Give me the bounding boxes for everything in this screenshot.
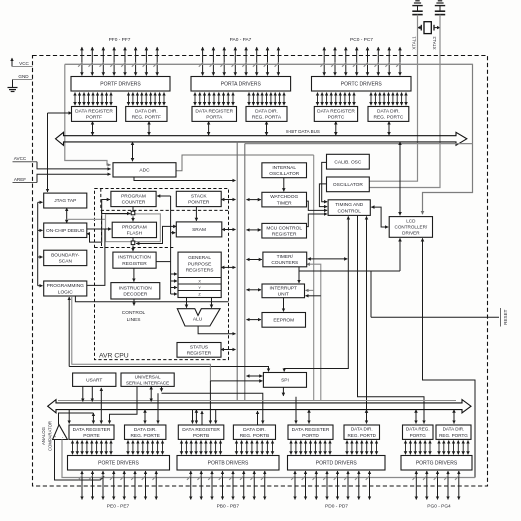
dashed region AVR CPU bbox=[95, 189, 229, 360]
box OSCILLATOR bbox=[327, 177, 370, 192]
svg-text:BOUNDARY-: BOUNDARY- bbox=[51, 252, 80, 258]
box PORTD DRIVERS bbox=[288, 456, 386, 471]
svg-text:CALIB. OSC: CALIB. OSC bbox=[334, 159, 361, 165]
bus rail A vertical bbox=[236, 142, 238, 401]
svg-text:PE0 - PE7: PE0 - PE7 bbox=[107, 504, 130, 510]
svg-text:DATA REGISTER: DATA REGISTER bbox=[182, 427, 220, 433]
wire programming logic to flash vertical bbox=[87, 229, 105, 285]
svg-text:VCC: VCC bbox=[19, 61, 29, 66]
svg-text:DECODER: DECODER bbox=[123, 292, 148, 298]
svg-text:CONTROL: CONTROL bbox=[122, 310, 146, 316]
svg-text:AVCC: AVCC bbox=[14, 156, 27, 161]
wire feeder to JTAG TAP bbox=[38, 201, 43, 203]
wire programming logic down to SPI (black) bbox=[69, 297, 268, 372]
svg-text:PROGRAMMING: PROGRAMMING bbox=[47, 283, 85, 289]
svg-text:INSTRUCTION: INSTRUCTION bbox=[119, 285, 152, 291]
svg-text:POINTER: POINTER bbox=[188, 200, 210, 206]
box JTAG TAP bbox=[44, 193, 87, 208]
svg-text:REG. PORTF: REG. PORTF bbox=[132, 115, 161, 121]
wire timing rail to PORTD direction register bbox=[366, 216, 368, 423]
power VCC bbox=[12, 58, 33, 67]
box WATCHDOG TIMER bbox=[262, 192, 307, 207]
bus arrow to PORTB register bbox=[195, 410, 197, 424]
wire timing and control to LCD bbox=[371, 207, 388, 227]
analog supply AVCC wire to ADC bbox=[13, 156, 111, 169]
box TIMER/COUNTERS bbox=[263, 252, 307, 267]
box DATA DIR. REG. PORTD bbox=[344, 425, 380, 439]
box DATA REG. PORTG bbox=[403, 425, 434, 439]
box ADC U-ADC bbox=[113, 163, 176, 177]
wire feeder to ON-CHIP DEBUG bbox=[38, 229, 43, 231]
capacitor C1 with ground (XTAL1) bbox=[412, 1, 422, 15]
bus arrow rail to MCU control register bbox=[247, 229, 261, 231]
wire rail D to interrupt unit bbox=[306, 295, 321, 297]
svg-text:AVR CPU: AVR CPU bbox=[99, 353, 129, 360]
alu U-ALU trapezoid bbox=[177, 309, 220, 326]
box BOUNDARY-SCAN bbox=[44, 250, 87, 265]
wire gray distribution under bus bbox=[245, 143, 473, 145]
pin label RESET with overline bbox=[501, 308, 509, 327]
svg-text:PORTA: PORTA bbox=[206, 115, 223, 121]
svg-text:REGISTER: REGISTER bbox=[122, 261, 147, 267]
svg-text:PORTC DRIVERS: PORTC DRIVERS bbox=[341, 82, 383, 88]
wire PC to flash with junction square bbox=[131, 207, 135, 222]
svg-text:PORTD DRIVERS: PORTD DRIVERS bbox=[316, 461, 358, 467]
svg-text:PORTE: PORTE bbox=[83, 433, 99, 439]
wire IR to register rail bbox=[156, 261, 171, 263]
wire rail to Z register bbox=[171, 293, 177, 295]
svg-text:PG0 - PG4: PG0 - PG4 bbox=[427, 504, 451, 510]
box DATA DIR. REG. PORTF bbox=[126, 107, 167, 122]
bus arrow data bus to LCD controller bbox=[399, 142, 401, 215]
svg-text:PURPOSE: PURPOSE bbox=[188, 261, 211, 267]
wire calib osc to timing and control bbox=[322, 162, 327, 201]
svg-text:AREF: AREF bbox=[14, 177, 26, 182]
bus arrow to PORTD register bbox=[308, 410, 310, 424]
box PROGRAM FLASH bbox=[112, 222, 156, 237]
svg-text:EEPROM: EEPROM bbox=[273, 318, 294, 324]
wire USART to bus 2 bbox=[91, 386, 93, 401]
svg-text:XTAL1: XTAL1 bbox=[412, 36, 417, 50]
wire rail to general purpose registers bbox=[171, 273, 177, 275]
svg-text:UNIVERSAL: UNIVERSAL bbox=[135, 374, 161, 379]
svg-text:DRIVER: DRIVER bbox=[402, 230, 420, 235]
svg-text:MCU CONTROL: MCU CONTROL bbox=[266, 225, 302, 231]
svg-text:DATA REGISTER: DATA REGISTER bbox=[195, 109, 233, 115]
box PORTA DRIVERS bbox=[191, 77, 291, 92]
svg-text:DATA REGISTER: DATA REGISTER bbox=[317, 109, 355, 115]
svg-text:GENERAL: GENERAL bbox=[188, 255, 211, 261]
box ON-CHIP DEBUG bbox=[44, 223, 87, 238]
wire bus to PORTB register 1 bbox=[192, 410, 194, 424]
op-amp analog comparator triangle bbox=[53, 425, 68, 440]
gray port routing line top bbox=[65, 63, 473, 65]
box USART bbox=[73, 373, 116, 386]
box DATA DIR. REG. PORTC bbox=[368, 107, 409, 122]
svg-text:INTERNAL: INTERNAL bbox=[272, 165, 296, 171]
wire comparator minus input gray bottom routing bbox=[62, 440, 475, 478]
box PORTC DRIVERS bbox=[312, 77, 412, 92]
svg-text:COMPARATOR: COMPARATOR bbox=[48, 421, 53, 451]
box DATA DIR. REG. PORTA bbox=[246, 107, 287, 122]
box CALIB. OSC bbox=[327, 154, 370, 169]
wire ADC to internal rail bbox=[176, 155, 314, 171]
box DATA REGISTER PORTB bbox=[178, 425, 224, 439]
wire gray distribution above bottom bus bbox=[58, 400, 456, 402]
box PORTB DRIVERS bbox=[177, 456, 279, 471]
box PORTF DRIVERS bbox=[71, 77, 170, 92]
bus arrows PORTF drivers to registers bbox=[75, 93, 111, 106]
svg-text:PORTA DRIVERS: PORTA DRIVERS bbox=[221, 82, 262, 88]
outer dashed chip boundary bbox=[33, 56, 488, 487]
svg-text:REG. PORTE: REG. PORTE bbox=[130, 433, 160, 439]
svg-text:LCD: LCD bbox=[406, 219, 416, 224]
bus arrow rail to EEPROM bbox=[247, 319, 262, 321]
svg-text:PORTC: PORTC bbox=[328, 115, 345, 121]
svg-text:DATA DIR.: DATA DIR. bbox=[134, 427, 157, 433]
analog ref AREF wire to ADC bbox=[13, 174, 111, 182]
bus arrow JTAG TAP to ON-CHIP DEBUG bbox=[66, 208, 68, 223]
box UNIVERSAL SERIAL INTERFACE bbox=[121, 373, 174, 386]
port PD pin arrows bottom bbox=[295, 471, 370, 500]
svg-text:PORTB DRIVERS: PORTB DRIVERS bbox=[208, 461, 249, 467]
capacitor C2 with ground (XTAL2) bbox=[435, 1, 445, 15]
svg-text:TIMER: TIMER bbox=[277, 200, 292, 206]
svg-text:PF0 - PF7: PF0 - PF7 bbox=[109, 37, 131, 43]
wire XTAL1 to oscillator bbox=[369, 15, 417, 182]
svg-text:SPI: SPI bbox=[281, 378, 289, 384]
svg-text:PORTF DRIVERS: PORTF DRIVERS bbox=[100, 82, 141, 88]
bus arrow status register to rail bbox=[221, 349, 236, 351]
wire bus to PORTB register 2 bbox=[215, 410, 217, 424]
junction ticks bottom routing bbox=[78, 476, 459, 480]
box STACK POINTER bbox=[176, 191, 221, 206]
svg-text:INTERRUPT: INTERRUPT bbox=[270, 285, 298, 291]
junction ticks top routing bbox=[78, 62, 400, 66]
svg-text:PROGRAM: PROGRAM bbox=[121, 194, 146, 200]
bus 8-BIT DATA BUS bbox=[56, 132, 467, 145]
box STATUS REGISTER bbox=[177, 343, 221, 358]
wire decoder to control lines bbox=[133, 299, 135, 306]
svg-text:REG. PORTC: REG. PORTC bbox=[374, 115, 404, 121]
wire ALU output to rail A bbox=[198, 326, 235, 334]
wire XTAL2 to oscillator bbox=[369, 15, 440, 188]
bus arrow SRAM to rail bbox=[222, 229, 236, 231]
svg-text:LINES: LINES bbox=[127, 317, 141, 323]
svg-text:SCAN: SCAN bbox=[59, 259, 73, 265]
svg-text:DATA DIR.: DATA DIR. bbox=[243, 427, 266, 433]
bus arrows PORTA drivers to registers bbox=[195, 93, 233, 106]
wire registers to ALU right input bbox=[211, 298, 213, 308]
box DATA REGISTER PORTA bbox=[192, 107, 237, 122]
box TIMING AND CONTROL bbox=[328, 200, 370, 216]
svg-text:CONTROL: CONTROL bbox=[337, 208, 361, 214]
box INSTRUCTION DECODER bbox=[111, 283, 160, 299]
svg-text:REGISTERS: REGISTERS bbox=[186, 268, 214, 274]
box DATA REGISTER PORTF bbox=[72, 107, 117, 122]
bus arrow to PORTG register bbox=[415, 410, 417, 424]
box LCD CONTROLLER/DRIVER bbox=[389, 217, 432, 238]
box PORTE DRIVERS bbox=[68, 456, 170, 471]
svg-text:PC0 - PC7: PC0 - PC7 bbox=[350, 37, 373, 43]
port PA pin arrows bbox=[203, 47, 279, 75]
bus arrow rail to interrupt unit bbox=[247, 289, 262, 291]
svg-text:REG. PORTD: REG. PORTD bbox=[347, 433, 376, 438]
svg-text:CONTROLLER/: CONTROLLER/ bbox=[395, 225, 428, 230]
svg-text:COUNTER: COUNTER bbox=[122, 200, 146, 206]
svg-text:DATA DIR.: DATA DIR. bbox=[135, 109, 158, 115]
box INSTRUCTION REGISTER bbox=[113, 252, 156, 268]
svg-text:DATA REGISTER: DATA REGISTER bbox=[73, 427, 111, 433]
bus arrow data bus to ADC bbox=[132, 142, 134, 161]
svg-text:8-BIT DATA BUS: 8-BIT DATA BUS bbox=[286, 129, 320, 134]
svg-text:OSCILLATOR: OSCILLATOR bbox=[269, 171, 299, 177]
wire rail to X register bbox=[171, 280, 177, 282]
bus arrows PORTG registers to drivers bbox=[406, 441, 431, 455]
box PORTG DRIVERS bbox=[401, 456, 472, 471]
box GENERAL PURPOSE REGISTERS with X Y Z bbox=[178, 252, 221, 297]
svg-text:PORTG: PORTG bbox=[410, 433, 427, 438]
svg-text:COUNTERS: COUNTERS bbox=[271, 260, 298, 266]
box EEPROM bbox=[262, 313, 306, 328]
bus arrow rail to watchdog bbox=[247, 199, 261, 201]
wire timing rail to PORTG register bbox=[358, 215, 425, 423]
wire port wire to PORTD register bbox=[295, 397, 297, 424]
box DATA DIR. REG. PORTE bbox=[125, 425, 166, 439]
svg-text:USART: USART bbox=[86, 377, 102, 383]
label CONTROL LINES bbox=[122, 310, 146, 323]
bus arrow rail to SPI bbox=[247, 375, 263, 377]
box MCU CONTROL REGISTER bbox=[262, 223, 307, 238]
wire watchdog to timing and control bbox=[307, 201, 328, 210]
svg-text:PD0 - PD7: PD0 - PD7 bbox=[325, 504, 348, 510]
svg-text:DATA DIR.: DATA DIR. bbox=[377, 109, 400, 115]
wire PORTB register to bus up bbox=[201, 411, 203, 425]
bus arrows PORTC drivers to registers bbox=[318, 93, 355, 106]
wire rail to Y register bbox=[171, 287, 177, 289]
svg-text:DATA DIR.: DATA DIR. bbox=[351, 427, 373, 432]
dashed divider flash section bbox=[95, 210, 175, 247]
port PF pin arrows bbox=[82, 47, 157, 75]
svg-text:STACK: STACK bbox=[191, 194, 207, 200]
box SPI bbox=[263, 373, 306, 388]
bus arrow stack pointer to rail bbox=[221, 199, 235, 201]
svg-text:REG. PORTA: REG. PORTA bbox=[252, 115, 282, 121]
wire reset to LCD bottom right bbox=[422, 238, 424, 317]
wire reset to interrupt unit bbox=[298, 267, 300, 283]
wire interrupt unit to EEPROM bbox=[283, 298, 285, 312]
svg-text:+: + bbox=[54, 435, 56, 439]
wire reset vertical bbox=[370, 271, 372, 317]
svg-text:PB0 - PB7: PB0 - PB7 bbox=[217, 504, 240, 510]
wire rail to SRAM left bbox=[171, 232, 176, 234]
wire to SPI left input bbox=[210, 380, 262, 382]
svg-text:PORTE DRIVERS: PORTE DRIVERS bbox=[98, 461, 139, 467]
svg-text:PORTD: PORTD bbox=[302, 433, 319, 439]
wire stack pointer to SRAM bbox=[195, 207, 197, 221]
wire feeder to PROGRAMMING LOGIC bbox=[38, 285, 43, 287]
svg-text:LOGIC: LOGIC bbox=[58, 289, 73, 295]
svg-text:ADC: ADC bbox=[139, 168, 150, 174]
wire oscillator to timing and control bbox=[319, 184, 327, 207]
bus arrows top registers to data bus bbox=[93, 121, 390, 135]
port PC pin arrows bbox=[324, 47, 400, 75]
wire comparator plus input bbox=[55, 440, 105, 481]
ground GND bbox=[8, 74, 33, 92]
bus arrow to PORTG direction register bbox=[453, 410, 455, 424]
dashed divider direct/indirect bbox=[101, 189, 229, 211]
bus arrows PORTB registers to drivers bbox=[182, 441, 221, 455]
box DATA DIR. REG. PORTB bbox=[233, 425, 275, 439]
wire MCU control register to timing and control bbox=[307, 214, 328, 227]
wire flash junction to SRAM bbox=[136, 226, 176, 243]
wire on-chip debug to program counter bbox=[87, 200, 110, 243]
svg-text:INSTRUCTION: INSTRUCTION bbox=[118, 255, 151, 261]
svg-text:REGISTER: REGISTER bbox=[187, 351, 212, 357]
wire SPI to port wire bbox=[282, 387, 284, 396]
bus arrow registers to rail bbox=[221, 266, 235, 268]
wire Z to ALU left input bbox=[186, 298, 188, 308]
svg-text:DATA REGISTER: DATA REGISTER bbox=[292, 427, 330, 433]
bus arrow timer/counters to timing rail bbox=[308, 258, 348, 260]
wire DATA REGISTER PORTF to JTAG TAP bbox=[48, 113, 72, 192]
svg-text:GND: GND bbox=[18, 74, 29, 79]
svg-text:STATUS: STATUS bbox=[190, 344, 208, 350]
wire USI to bus bbox=[150, 386, 152, 401]
box DATA REGISTER PORTD bbox=[288, 425, 333, 439]
wire reset distribution horizontal bbox=[299, 270, 400, 272]
wire timing rail to SPI bbox=[284, 216, 348, 371]
bus rail D vertical (timer) bbox=[307, 264, 321, 400]
box INTERRUPT UNIT bbox=[262, 284, 305, 298]
svg-text:PORTB: PORTB bbox=[193, 433, 209, 439]
wire USART to bus 1 bbox=[82, 386, 84, 401]
svg-text:DATA REGISTER: DATA REGISTER bbox=[75, 109, 113, 115]
bus arrow to PORTE direction register bbox=[144, 410, 146, 424]
wire flash to instruction register with junction square bbox=[131, 238, 135, 252]
wire internal oscillator to watchdog bbox=[283, 178, 285, 192]
svg-text:DATA DIR.: DATA DIR. bbox=[443, 427, 465, 432]
wire CPU internal bus horizontal bbox=[75, 296, 228, 302]
box DATA REGISTER PORTE bbox=[69, 425, 114, 439]
svg-text:TIMING AND: TIMING AND bbox=[335, 202, 364, 208]
svg-text:DATA REG.: DATA REG. bbox=[406, 427, 430, 432]
port PE pin arrows bottom bbox=[82, 471, 156, 500]
wire RESET pin bbox=[371, 316, 499, 318]
wire feeder left column bbox=[37, 202, 39, 285]
svg-text:UNIT: UNIT bbox=[278, 292, 289, 298]
wire feeder to BOUNDARY-SCAN bbox=[38, 256, 43, 258]
svg-text:REG. PORTG: REG. PORTG bbox=[439, 433, 468, 438]
svg-text:FLASH: FLASH bbox=[127, 231, 143, 237]
box DATA REGISTER PORTC bbox=[314, 107, 357, 122]
bus arrow rail to timer/counters bbox=[247, 259, 262, 261]
wire PC right to register file rail bbox=[157, 196, 171, 294]
svg-text:PORTG DRIVERS: PORTG DRIVERS bbox=[416, 461, 458, 467]
crystal Y1 bbox=[418, 22, 441, 34]
svg-text:PA0 - PA7: PA0 - PA7 bbox=[230, 37, 252, 43]
svg-text:SERIAL INTERFACE: SERIAL INTERFACE bbox=[126, 380, 169, 385]
wire USI to PORTE register jog bbox=[110, 386, 138, 423]
svg-text:REGISTER: REGISTER bbox=[272, 231, 297, 237]
svg-text:ON-CHIP DEBUG: ON-CHIP DEBUG bbox=[46, 228, 85, 234]
wire USI to PORTB direction register bbox=[162, 386, 263, 423]
wire reset to port G area bbox=[423, 317, 476, 477]
box SRAM bbox=[176, 222, 222, 237]
box PROGRAMMING LOGIC bbox=[44, 281, 87, 296]
label ANALOG COMPARATOR bbox=[41, 421, 53, 451]
svg-text:ALU: ALU bbox=[193, 317, 203, 323]
wire IR to instruction decoder bbox=[133, 268, 135, 281]
svg-text:PROGRAM: PROGRAM bbox=[122, 224, 147, 230]
svg-text:PORTF: PORTF bbox=[86, 115, 102, 121]
wire programming logic down to SPI left (gray) bbox=[72, 297, 211, 381]
svg-text:SRAM: SRAM bbox=[192, 227, 206, 233]
bus rail C vertical (ADC) bbox=[313, 155, 315, 401]
box DATA DIR. REG. PORTG bbox=[436, 425, 471, 439]
bus rail B vertical bbox=[244, 144, 246, 401]
wire to LCD bottom left bbox=[399, 238, 401, 271]
svg-text:JTAG TAP: JTAG TAP bbox=[54, 198, 76, 204]
wire comparator output to PORTE register bbox=[59, 413, 94, 425]
svg-text:XTAL2: XTAL2 bbox=[432, 36, 437, 50]
svg-text:REG. PORTB: REG. PORTB bbox=[240, 433, 270, 439]
port PB pin arrows bottom bbox=[191, 471, 265, 500]
wire on-chip debug to program flash bbox=[87, 228, 111, 230]
bus 8-bit data bus bottom bbox=[48, 400, 471, 413]
port PG pin arrows bottom bbox=[416, 471, 459, 500]
wire USART to PORTE register bbox=[100, 388, 102, 424]
wire corner down to PORTB register bbox=[209, 381, 211, 424]
bus arrows PORTD registers to drivers bbox=[291, 441, 330, 455]
wire gray inner border top-right to LCD bbox=[65, 64, 473, 214]
wire ADC lower to rail A bbox=[134, 177, 236, 181]
box INTERNAL OSCILLATOR bbox=[262, 163, 307, 178]
box PROGRAM COUNTER bbox=[111, 191, 156, 206]
svg-text:OSCILLATOR: OSCILLATOR bbox=[333, 182, 363, 188]
svg-text:WATCHDOG: WATCHDOG bbox=[270, 194, 298, 200]
wire routing to PORTE direction register bbox=[157, 393, 159, 423]
wire gray inner border left to ADC bbox=[65, 64, 111, 164]
bus arrows PORTE registers to drivers bbox=[73, 441, 112, 455]
svg-text:TIMER/: TIMER/ bbox=[277, 254, 294, 260]
wire rail C to interrupt unit bbox=[306, 289, 314, 291]
svg-text:DATA DIR.: DATA DIR. bbox=[255, 109, 278, 115]
wire PORTB direction register to bus up bbox=[257, 411, 259, 425]
wire bus to PORTE register bbox=[68, 410, 70, 424]
svg-text:ANALOG: ANALOG bbox=[41, 426, 46, 445]
gray loop around program flash bbox=[67, 214, 161, 242]
svg-text:RESET: RESET bbox=[503, 309, 508, 325]
wire junction square to PC/OCD vertical bbox=[102, 213, 131, 215]
